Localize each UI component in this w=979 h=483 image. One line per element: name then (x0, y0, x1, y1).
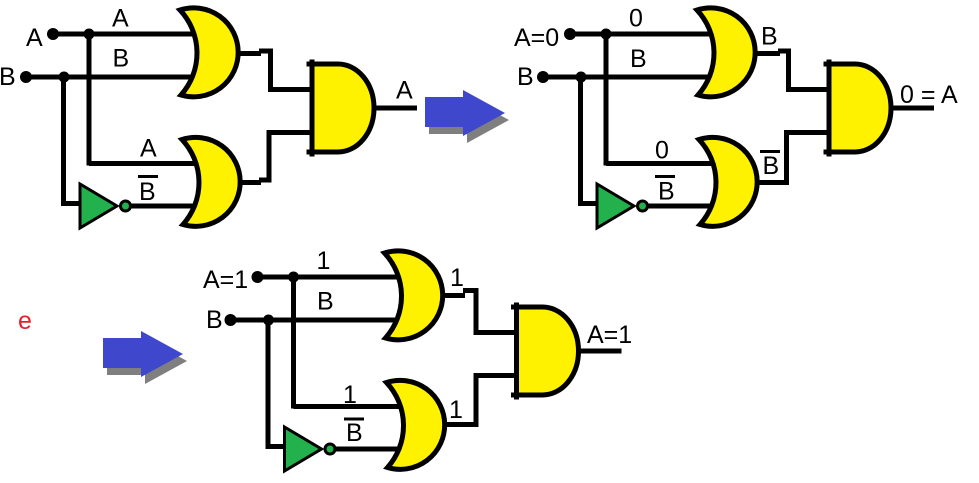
svg-text:A=0: A=0 (514, 24, 559, 52)
svg-text:0: 0 (629, 5, 643, 33)
svg-text:B: B (317, 288, 334, 316)
svg-text:B: B (206, 306, 223, 334)
svg-text:1: 1 (450, 264, 464, 292)
svg-text:1: 1 (343, 381, 357, 409)
svg-text:A: A (140, 135, 157, 163)
svg-text:B: B (658, 178, 675, 206)
svg-text:B: B (517, 63, 534, 91)
svg-text:0 = A: 0 = A (900, 81, 958, 109)
svg-text:e: e (18, 307, 32, 335)
svg-text:1: 1 (449, 396, 463, 424)
svg-text:A: A (396, 77, 413, 105)
svg-text:B: B (113, 45, 130, 73)
svg-text:B: B (761, 23, 778, 51)
svg-text:A: A (26, 24, 43, 52)
svg-text:A: A (112, 5, 129, 33)
svg-text:A=1: A=1 (587, 321, 632, 349)
svg-text:B: B (0, 63, 16, 91)
svg-text:1: 1 (317, 247, 331, 275)
svg-text:B: B (763, 152, 780, 180)
svg-text:B: B (346, 419, 363, 447)
svg-text:B: B (630, 45, 647, 73)
svg-text:A=1: A=1 (203, 266, 248, 294)
svg-text:0: 0 (655, 137, 669, 165)
svg-text:B: B (139, 178, 156, 206)
